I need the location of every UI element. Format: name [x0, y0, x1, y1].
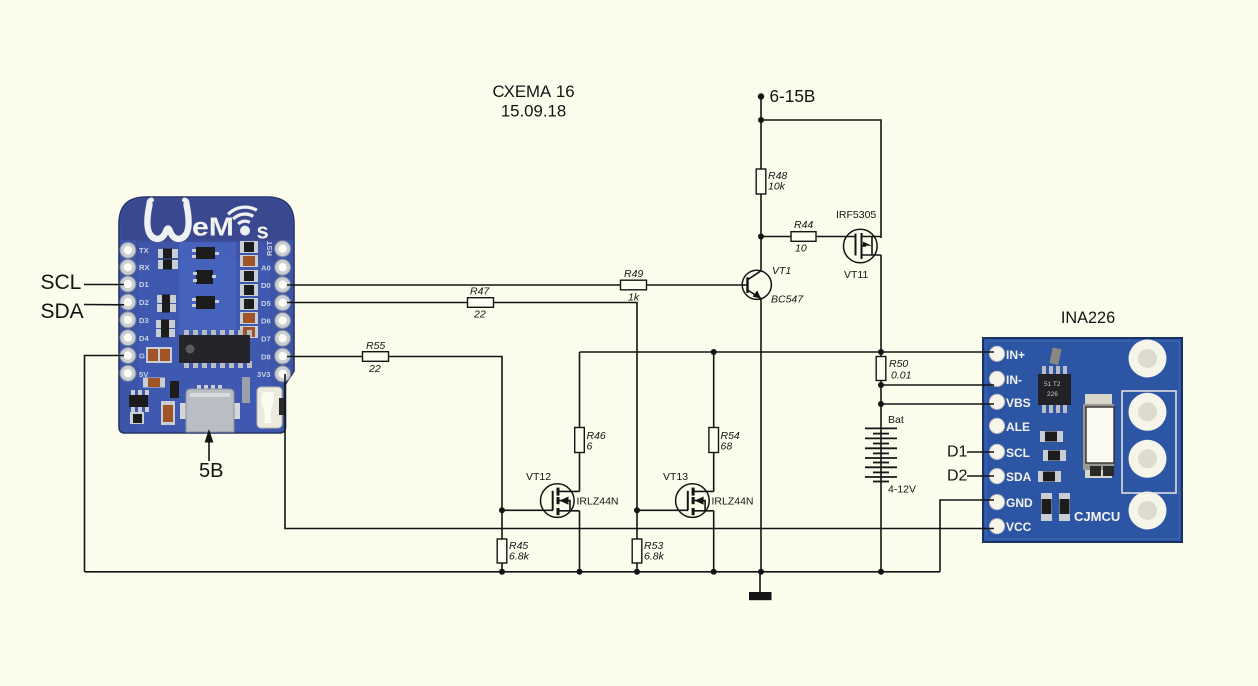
- junction VT12 gate: [499, 507, 505, 513]
- wire VT13 source to rail: [713, 511, 715, 572]
- junction at 761,236.5: [758, 234, 764, 240]
- wire shunt rail to IN+: [580, 351, 995, 353]
- transistor VT13 IRLZ44N: [663, 471, 754, 517]
- svg-text:D6: D6: [261, 317, 271, 326]
- transistor VT12 IRLZ44N: [526, 471, 619, 517]
- resistor R45: [497, 539, 529, 563]
- svg-text:IRLZ44N: IRLZ44N: [712, 496, 754, 508]
- wire R54 to shunt rail: [713, 352, 715, 428]
- svg-text:15.09.18: 15.09.18: [501, 102, 566, 121]
- junction rail R53: [634, 569, 640, 575]
- svg-text:IN-: IN-: [1006, 373, 1022, 387]
- svg-text:6.8k: 6.8k: [509, 551, 530, 563]
- svg-text:BC547: BC547: [771, 294, 804, 306]
- wire VT1 emitter to ground rail: [760, 299, 762, 572]
- transistor VT11 IRF5305: [836, 209, 881, 281]
- svg-text:R50: R50: [889, 358, 908, 370]
- svg-text:TX: TX: [139, 246, 149, 255]
- svg-text:VT11: VT11: [844, 269, 868, 281]
- svg-text:0.01: 0.01: [891, 370, 911, 382]
- svg-text:SDA: SDA: [41, 300, 84, 323]
- module WeMos D1 mini board: [119, 197, 294, 433]
- node 6-15V: [758, 86, 816, 106]
- svg-text:IN+: IN+: [1006, 348, 1025, 362]
- wire R46 to shunt rail: [579, 352, 581, 428]
- SOT23 chips center column: [192, 247, 219, 309]
- svg-text:VT12: VT12: [526, 471, 551, 483]
- svg-text:SCL: SCL: [41, 271, 82, 294]
- resistor R49: [621, 268, 647, 304]
- battery Bat: [865, 414, 916, 496]
- svg-text:D0: D0: [261, 281, 271, 290]
- wire R44 to VT11 gate: [816, 236, 856, 238]
- svg-text:VT1: VT1: [772, 265, 791, 277]
- wire SDA to D2: [84, 304, 124, 306]
- junction R54 top: [711, 349, 717, 355]
- resistor R53: [632, 539, 664, 563]
- svg-text:IRLZ44N: IRLZ44N: [577, 496, 619, 508]
- svg-text:6.8k: 6.8k: [644, 551, 665, 563]
- SOT89 regulator bottom-left: [129, 390, 149, 412]
- wire D0 line to R49: [287, 284, 621, 286]
- right mounting holes: [1129, 340, 1167, 530]
- resistor R55: [363, 340, 389, 375]
- junction R50 top: [878, 349, 884, 355]
- wire VT13 drain up to R54: [713, 428, 715, 492]
- svg-text:D1: D1: [947, 444, 968, 461]
- svg-text:Bat: Bat: [888, 414, 904, 426]
- antenna/logo zone: [121, 199, 293, 241]
- white silk rectangle: [1122, 391, 1176, 493]
- svg-text:22: 22: [368, 363, 381, 375]
- junction rail VT1 emitter: [758, 569, 764, 575]
- svg-text:GND: GND: [1006, 496, 1033, 510]
- wire GND pin: [940, 500, 994, 572]
- svg-text:R55: R55: [366, 340, 385, 352]
- right pin labels: [257, 240, 274, 379]
- svg-text:A0: A0: [261, 264, 271, 273]
- svg-text:G: G: [139, 352, 145, 361]
- svg-text:VT13: VT13: [663, 471, 688, 483]
- svg-text:4-12V: 4-12V: [888, 484, 916, 496]
- wire D2 to SDA pin: [967, 475, 994, 477]
- svg-text:IRF5305: IRF5305: [836, 209, 876, 221]
- wire R47 to VT13 gate line: [494, 303, 638, 540]
- junction rail R45: [499, 569, 505, 575]
- IC INA226 SOIC8: [1038, 366, 1071, 413]
- ground: [749, 572, 772, 600]
- center bright zone: [139, 242, 270, 431]
- small square part bottom-left: [130, 412, 144, 424]
- resistor R44: [791, 219, 816, 255]
- junction R50 bottom: [878, 382, 884, 388]
- svg-text:68: 68: [721, 441, 733, 453]
- SMD parts mid-left near D3: [156, 295, 176, 338]
- resistor R48: [756, 169, 787, 194]
- svg-text:3V3: 3V3: [257, 370, 271, 379]
- wire VT11 drain down to R50: [880, 255, 882, 357]
- wire R53 to rail: [636, 563, 638, 572]
- svg-text:RST: RST: [265, 240, 274, 256]
- svg-text:CJMCU: CJMCU: [1074, 509, 1120, 524]
- svg-text:СХЕМА 16: СХЕМА 16: [492, 82, 574, 101]
- small parts near 5V: [143, 378, 179, 399]
- SMD top middle: [1049, 347, 1061, 365]
- svg-text:D2: D2: [139, 298, 149, 307]
- wire 3V3 to VCC: [285, 374, 994, 529]
- svg-text:eM: eM: [192, 212, 234, 242]
- wire D5 line to R47: [287, 302, 468, 304]
- wire R50 bottom to battery and rail: [880, 381, 882, 572]
- board outline: [983, 338, 1182, 542]
- right pin holes RST A0 D0 D5 D6 D7 D8 3V3: [275, 241, 291, 382]
- SMD pair near G pin: [146, 347, 172, 363]
- wire R45 to rail: [501, 563, 503, 572]
- junction rail battery: [878, 569, 884, 575]
- junction rail VT12 source: [577, 569, 583, 575]
- wire R55 to VT12 gate line: [389, 357, 503, 540]
- svg-text:R49: R49: [624, 268, 643, 280]
- resistor R47: [468, 286, 494, 321]
- junction VBS tap: [878, 401, 884, 407]
- two vertical SMDs bottom: [1041, 493, 1070, 521]
- svg-text:D8: D8: [261, 353, 271, 362]
- capacitor tall brown: [161, 401, 175, 425]
- USB connector: [180, 385, 240, 432]
- shunt resistor big white part: [1083, 394, 1114, 478]
- left pin labels: [139, 246, 150, 379]
- wire gate VT12: [502, 509, 553, 511]
- junction at 761,120: [758, 117, 764, 123]
- junction VT13 gate: [634, 507, 640, 513]
- wire top horizontal to 881: [761, 120, 881, 238]
- svg-text:D4: D4: [139, 334, 149, 343]
- wire SCL to D1: [84, 284, 124, 286]
- svg-text:6-15В: 6-15В: [770, 86, 816, 106]
- svg-text:SCL: SCL: [1006, 446, 1030, 460]
- wire to VBS: [881, 403, 994, 405]
- svg-text:5В: 5В: [199, 460, 223, 482]
- left pin holes TX RX D1 D2 D3 D4 G 5V: [120, 242, 136, 381]
- resistor R54: [709, 428, 740, 453]
- gray part right of USB: [242, 377, 250, 403]
- svg-text:D5: D5: [261, 299, 271, 308]
- SMD column right near RST: [240, 241, 258, 338]
- svg-text:6: 6: [587, 441, 593, 453]
- wire R49 to VT1 base: [647, 284, 748, 286]
- svg-text:SDA: SDA: [1006, 470, 1032, 484]
- svg-text:R47: R47: [470, 286, 490, 298]
- svg-text:ALE: ALE: [1006, 420, 1030, 434]
- resistor R50: [876, 357, 911, 382]
- svg-text:10k: 10k: [768, 181, 786, 193]
- wire R48 to VT1 collector: [760, 194, 762, 271]
- wire G to ground rail: [85, 356, 125, 572]
- main IC ESP chip: [179, 330, 252, 368]
- pin labels IN+ IN- VBS ALE SCL SDA GND VCC: [1006, 348, 1033, 534]
- svg-text:D3: D3: [139, 316, 149, 325]
- wire D1 to SCL pin: [967, 451, 994, 453]
- SMD parts top-left near TX/RX: [158, 249, 178, 270]
- wire VT12 source to rail: [579, 511, 581, 572]
- svg-text:51 T2: 51 T2: [1044, 381, 1061, 388]
- module INA226 CJMCU board: [983, 309, 1182, 542]
- svg-text:10: 10: [795, 243, 807, 255]
- wire D8 line to R55: [287, 356, 363, 358]
- wire to R44: [761, 236, 791, 238]
- svg-text:RX: RX: [139, 263, 150, 272]
- svg-text:D2: D2: [947, 468, 968, 485]
- left pin holes: [989, 346, 1004, 534]
- small SMDs near SCL/SDA: [1038, 431, 1066, 482]
- wire to IN-: [881, 384, 994, 386]
- WeMos logo: [147, 200, 268, 244]
- svg-text:D7: D7: [261, 335, 271, 344]
- resistor R46: [575, 428, 606, 453]
- svg-text:R44: R44: [794, 219, 813, 231]
- transistor VT1 BC547: [742, 265, 804, 306]
- svg-text:s: s: [257, 219, 269, 244]
- label 5B with arrow to USB: [199, 429, 223, 482]
- wire +V vertical 761: [760, 97, 762, 170]
- reset button: [257, 387, 285, 428]
- wire gate VT13: [637, 509, 688, 511]
- title text: [492, 82, 574, 121]
- board outline: [119, 197, 294, 433]
- junction rail VT13 source: [711, 569, 717, 575]
- svg-text:226: 226: [1047, 391, 1058, 398]
- svg-text:VBS: VBS: [1006, 396, 1031, 410]
- svg-text:D1: D1: [139, 280, 149, 289]
- wire VT12 drain up to R46: [579, 428, 581, 492]
- svg-text:INA226: INA226: [1061, 309, 1115, 327]
- svg-text:22: 22: [473, 309, 486, 321]
- svg-text:VCC: VCC: [1006, 520, 1032, 534]
- wire ground rail: [85, 571, 941, 573]
